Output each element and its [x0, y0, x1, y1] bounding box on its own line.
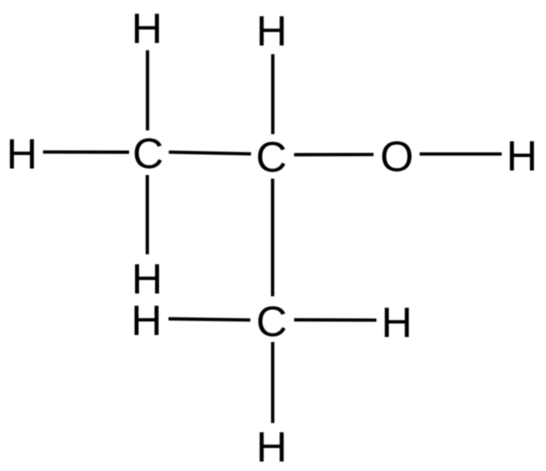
svg-text:H: H	[506, 133, 537, 181]
wire bond H-C1 left horizontal	[43, 150, 129, 153]
wire bond C3-H right horizontal	[294, 318, 376, 322]
wire bond C1-C2	[169, 152, 251, 154]
wire bond H-C1 top-left vertical	[146, 50, 149, 130]
wire bond C1-H below vertical	[146, 175, 149, 254]
svg-text:O: O	[380, 133, 413, 181]
wire bond O-H right	[420, 152, 502, 155]
svg-text:H: H	[256, 424, 287, 471]
svg-text:C: C	[256, 133, 287, 181]
svg-text:H: H	[131, 5, 162, 53]
wire bond H-C2 top-center vertical	[271, 54, 274, 134]
wire bond C2-C3 vertical	[271, 179, 274, 297]
wire bond H-C3 left horizontal	[169, 319, 251, 320]
svg-text:H: H	[6, 130, 37, 178]
svg-text:H: H	[131, 297, 162, 345]
svg-text:C: C	[132, 130, 163, 178]
svg-text:C: C	[256, 298, 287, 346]
wire bond C3-H bottom vertical	[271, 342, 274, 423]
svg-text:H: H	[256, 7, 287, 55]
wire bond C2-O	[294, 153, 373, 156]
svg-text:H: H	[381, 299, 412, 347]
